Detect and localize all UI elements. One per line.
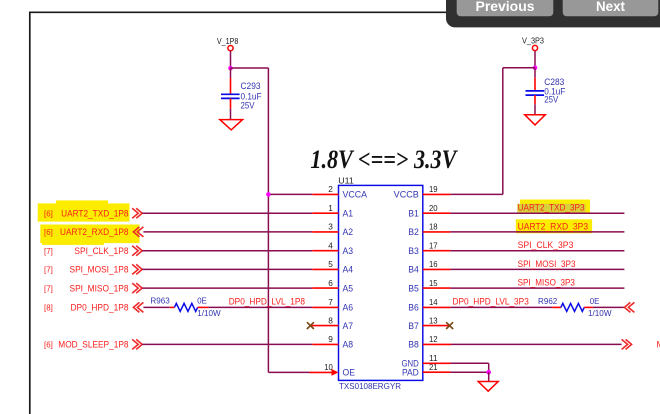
pin number 4 xyxy=(328,240,333,250)
svg-text:[7]: [7] xyxy=(44,246,53,256)
wire xyxy=(488,363,490,372)
port SPI_MOSI_1P8 xyxy=(132,264,142,274)
svg-text:SPI_MISO_3P3: SPI_MISO_3P3 xyxy=(518,278,575,288)
svg-text:UART2_TXD_1P8: UART2_TXD_1P8 xyxy=(61,208,128,218)
svg-text:U11: U11 xyxy=(338,176,354,186)
pin stub 2 xyxy=(312,193,338,195)
wire xyxy=(534,104,536,115)
value label R963 xyxy=(150,296,170,306)
pin number 6 xyxy=(328,278,333,288)
svg-text:0E: 0E xyxy=(197,296,207,306)
part number TXS0108ERGYR xyxy=(339,381,401,391)
pin name A3 xyxy=(343,246,354,256)
svg-text:25V: 25V xyxy=(544,94,558,104)
node V_1P8 junction xyxy=(228,66,233,71)
svg-text:B8: B8 xyxy=(408,340,419,350)
wire xyxy=(450,193,502,195)
svg-text:A1: A1 xyxy=(343,209,354,219)
svg-text:A8: A8 xyxy=(343,340,354,350)
pin number 9 xyxy=(328,334,333,344)
resistor R963 xyxy=(170,303,209,311)
wire xyxy=(450,231,624,233)
ground xyxy=(525,115,546,125)
svg-text:OE: OE xyxy=(343,368,356,378)
net label UART2_TXD_1P8 xyxy=(44,208,129,218)
svg-text:[7]: [7] xyxy=(44,265,53,275)
pin name A8 xyxy=(343,340,354,350)
pin stub 6 xyxy=(312,287,338,289)
power symbol V_3P3 xyxy=(522,36,544,50)
svg-text:7: 7 xyxy=(328,297,333,307)
wire xyxy=(231,67,269,69)
pin OE arrow xyxy=(310,369,339,376)
highlight UART2_TXD_3P3 xyxy=(517,200,590,214)
net label SPI_MOSI_1P8 xyxy=(44,265,129,275)
port UART2_RXD_1P8 xyxy=(133,227,143,237)
pin stub 3 xyxy=(312,231,338,233)
svg-text:B6: B6 xyxy=(408,303,419,313)
svg-text:A7: A7 xyxy=(343,321,354,331)
net label DP0_HPD_LVL_1P8 xyxy=(229,297,305,307)
highlight UART2_RXD_1P8 xyxy=(40,225,139,245)
wire xyxy=(268,193,312,195)
capacitor C283 xyxy=(526,78,545,105)
pin number 21 xyxy=(429,362,438,372)
svg-text:[6]: [6] xyxy=(44,227,53,237)
wire xyxy=(230,68,232,78)
ground xyxy=(220,120,243,130)
net label UART2_TXD_3P3 xyxy=(518,203,585,213)
wire xyxy=(450,268,624,270)
pin number 14 xyxy=(429,297,438,307)
wire xyxy=(267,68,269,372)
svg-text:1: 1 xyxy=(328,203,333,213)
wire xyxy=(230,51,232,69)
value label 1/10W xyxy=(197,308,221,318)
node V_3P3 junction xyxy=(533,66,538,71)
pin number 18 xyxy=(429,222,438,232)
title 1.8V <==> 3.3V xyxy=(310,145,458,174)
port DP0_HPD_LVL_3P3 xyxy=(624,302,634,312)
net label MOD_SLEEP_1P8 xyxy=(44,340,129,350)
nav panel xyxy=(446,0,660,27)
svg-text:A6: A6 xyxy=(343,303,354,313)
svg-text:MOD_SLEEP_1P8: MOD_SLEEP_1P8 xyxy=(58,340,128,350)
pin name B6 xyxy=(408,303,419,313)
pin number 17 xyxy=(429,240,438,250)
pin number 19 xyxy=(429,184,438,194)
net label SPI_MISO_1P8 xyxy=(44,283,129,293)
pin name A2 xyxy=(343,227,354,237)
svg-text:1/10W: 1/10W xyxy=(588,308,612,318)
pin number 5 xyxy=(328,259,333,269)
node GND junction xyxy=(486,370,491,375)
svg-text:A2: A2 xyxy=(343,227,354,237)
svg-text:17: 17 xyxy=(429,240,438,250)
wire xyxy=(450,371,488,373)
svg-text:SPI_MOSI_3P3: SPI_MOSI_3P3 xyxy=(518,259,576,269)
pin stub SPI_MISO_3P3 xyxy=(423,287,451,289)
svg-text:13: 13 xyxy=(429,315,438,325)
value label R962 xyxy=(538,296,558,306)
svg-text:A4: A4 xyxy=(343,265,354,275)
svg-text:UART2_RXD_3P3: UART2_RXD_3P3 xyxy=(518,221,589,231)
pin stub 21 xyxy=(423,371,451,373)
pin stub 9 xyxy=(312,343,338,345)
pin number 16 xyxy=(429,259,438,269)
svg-text:SPI_MISO_1P8: SPI_MISO_1P8 xyxy=(70,283,129,293)
wire xyxy=(534,51,536,68)
svg-text:SPI_CLK_3P3: SPI_CLK_3P3 xyxy=(518,240,574,250)
capacitor C293 xyxy=(221,78,240,109)
svg-text:18: 18 xyxy=(429,222,438,232)
svg-text:VCCA: VCCA xyxy=(343,190,368,200)
svg-text:25V: 25V xyxy=(241,100,255,110)
value label 0.1uF xyxy=(241,91,262,101)
value label 25V xyxy=(544,94,558,104)
svg-text:Next: Next xyxy=(596,0,625,14)
svg-text:UART2_RXD_1P8: UART2_RXD_1P8 xyxy=(60,227,129,237)
svg-text:SPI_CLK_1P8: SPI_CLK_1P8 xyxy=(74,246,128,256)
svg-text:R963: R963 xyxy=(150,296,170,306)
highlight UART2_RXD_3P3 xyxy=(516,219,592,233)
svg-text:VCCB: VCCB xyxy=(394,190,419,200)
svg-text:12: 12 xyxy=(429,334,438,344)
svg-text:B2: B2 xyxy=(408,227,419,237)
pin name OE xyxy=(343,368,356,378)
svg-text:0E: 0E xyxy=(590,296,600,306)
svg-text:A5: A5 xyxy=(343,283,354,293)
no-connect B7 xyxy=(423,322,453,329)
pin number 15 xyxy=(429,278,438,288)
net label SPI_MOSI_3P3 xyxy=(518,259,576,269)
svg-text:B7: B7 xyxy=(408,321,419,331)
pin stub 12 xyxy=(423,343,451,345)
value label C283 xyxy=(544,77,564,87)
pin name B1 xyxy=(408,209,419,219)
net label UART2_RXD_3P3 xyxy=(518,221,589,231)
pin name B7 xyxy=(408,321,419,331)
wire xyxy=(268,371,309,373)
pin name A7 xyxy=(343,321,354,331)
svg-text:Previous: Previous xyxy=(476,0,535,14)
node VCCA junction xyxy=(266,192,271,197)
svg-text:2: 2 xyxy=(328,184,333,194)
svg-text:B1: B1 xyxy=(408,209,419,219)
pin name A1 xyxy=(343,209,354,219)
wire xyxy=(450,212,624,214)
pin number 10 xyxy=(324,362,333,372)
wire xyxy=(208,306,312,308)
svg-text:[7]: [7] xyxy=(44,283,53,293)
wire xyxy=(488,372,490,381)
net label DP0_HPD_1P8 xyxy=(44,303,129,313)
pin name A4 xyxy=(343,265,354,275)
pin name VCCA xyxy=(343,190,368,200)
net label UART2_RXD_1P8 xyxy=(44,227,129,237)
pin name B8 xyxy=(408,340,419,350)
svg-text:5: 5 xyxy=(328,259,333,269)
pin number 2 xyxy=(328,184,333,194)
resistor R962 xyxy=(552,303,593,311)
svg-text:M: M xyxy=(657,340,660,350)
svg-text:8: 8 xyxy=(328,315,333,325)
value label 0E xyxy=(590,296,600,306)
svg-text:C283: C283 xyxy=(544,77,564,87)
pin stub 14 xyxy=(423,306,451,308)
pin name B3 xyxy=(408,246,419,256)
svg-text:1.8V <==> 3.3V: 1.8V <==> 3.3V xyxy=(310,145,458,174)
svg-text:[6]: [6] xyxy=(44,340,53,350)
pin stub 5 xyxy=(312,268,338,270)
wire xyxy=(142,287,312,289)
net label SPI_CLK_1P8 xyxy=(44,246,129,256)
pin stub SPI_CLK_3P3 xyxy=(423,250,451,252)
net label SPI_CLK_3P3 xyxy=(518,240,574,250)
svg-text:B5: B5 xyxy=(408,283,419,293)
port MOD_SLEEP_3P3 xyxy=(622,339,632,349)
refdes U11 xyxy=(338,176,354,186)
net label SPI_MISO_3P3 xyxy=(518,278,575,288)
wire xyxy=(142,212,312,214)
pin stub 7 xyxy=(312,306,338,308)
svg-text:PAD: PAD xyxy=(402,368,419,378)
wire xyxy=(143,306,169,308)
pin name GND xyxy=(402,359,420,369)
pin number 13 xyxy=(429,315,438,325)
button Next xyxy=(563,0,659,16)
pin number 8 xyxy=(328,315,333,325)
wire xyxy=(142,250,312,252)
svg-text:DP0_HPD_LVL_1P8: DP0_HPD_LVL_1P8 xyxy=(229,297,305,307)
svg-text:R962: R962 xyxy=(538,296,558,306)
svg-text:4: 4 xyxy=(328,240,333,250)
pin number 1 xyxy=(328,203,333,213)
svg-text:20: 20 xyxy=(429,203,438,213)
svg-text:1/10W: 1/10W xyxy=(197,308,221,318)
pin name A6 xyxy=(343,303,354,313)
IC U11 outline xyxy=(339,185,423,380)
power symbol V_1P8 xyxy=(217,37,239,51)
svg-text:9: 9 xyxy=(328,334,333,344)
pin stub SPI_MOSI_3P3 xyxy=(423,268,451,270)
wire xyxy=(450,250,624,252)
wire xyxy=(534,68,536,78)
pin number 12 xyxy=(429,334,438,344)
svg-text:SPI_MOSI_1P8: SPI_MOSI_1P8 xyxy=(70,265,129,275)
wire xyxy=(143,231,312,233)
pin stub 1 xyxy=(312,212,338,214)
wire xyxy=(593,306,625,308)
svg-text:19: 19 xyxy=(429,184,438,194)
pin stub 4 xyxy=(312,250,338,252)
pin name B5 xyxy=(408,283,419,293)
wire xyxy=(230,109,232,120)
pin name PAD xyxy=(402,368,419,378)
svg-text:C293: C293 xyxy=(241,81,261,91)
svg-text:UART2_TXD_3P3: UART2_TXD_3P3 xyxy=(518,203,585,213)
net label DP0_HPD_LVL_3P3 xyxy=(453,297,529,307)
wire xyxy=(142,268,312,270)
svg-text:16: 16 xyxy=(429,259,438,269)
port MOD_SLEEP_1P8 xyxy=(132,339,142,349)
svg-text:14: 14 xyxy=(429,297,438,307)
pin stub 19 xyxy=(423,193,451,195)
svg-text:[8]: [8] xyxy=(44,303,53,313)
port SPI_MISO_1P8 xyxy=(132,283,142,293)
svg-text:3: 3 xyxy=(328,222,333,232)
svg-text:V_1P8: V_1P8 xyxy=(217,37,239,46)
pin stub UART2_RXD_3P3 xyxy=(423,231,451,233)
svg-text:DP0_HPD_1P8: DP0_HPD_1P8 xyxy=(71,303,129,313)
pin number 11 xyxy=(429,353,438,363)
svg-text:B3: B3 xyxy=(408,246,419,256)
pin name VCCB xyxy=(394,190,419,200)
svg-text:6: 6 xyxy=(328,278,333,288)
value label 25V xyxy=(241,100,255,110)
wire xyxy=(503,67,535,69)
pin stub UART2_TXD_3P3 xyxy=(423,212,451,214)
svg-text:B4: B4 xyxy=(408,265,419,275)
value label 0.1uF xyxy=(544,87,565,97)
pin stub 11 xyxy=(423,362,451,364)
svg-text:A3: A3 xyxy=(343,246,354,256)
ground xyxy=(478,382,498,392)
port UART2_TXD_1P8 xyxy=(132,208,142,218)
value label 1/10W xyxy=(588,308,612,318)
pin number 20 xyxy=(429,203,438,213)
highlight UART2_TXD_1P8 xyxy=(38,200,130,221)
wire xyxy=(142,343,312,345)
wire xyxy=(450,306,552,308)
svg-text:[6]: [6] xyxy=(44,208,53,218)
pin name B4 xyxy=(408,265,419,275)
pin number 3 xyxy=(328,222,333,232)
net label fragment xyxy=(657,340,660,350)
value label 0E xyxy=(197,296,207,306)
port SPI_CLK_1P8 xyxy=(132,246,142,256)
pin name B2 xyxy=(408,227,419,237)
svg-text:TXS0108ERGYR: TXS0108ERGYR xyxy=(339,381,401,391)
svg-text:V_3P3: V_3P3 xyxy=(522,36,544,45)
svg-text:DP0_HPD_LVL_3P3: DP0_HPD_LVL_3P3 xyxy=(453,297,529,307)
no-connect A7 xyxy=(307,322,339,329)
wire xyxy=(502,68,504,195)
button Previous xyxy=(457,0,554,16)
pin name A5 xyxy=(343,283,354,293)
value label C293 xyxy=(241,81,261,91)
port DP0_HPD_1P8 xyxy=(133,302,143,312)
wire xyxy=(450,362,488,364)
svg-text:15: 15 xyxy=(429,278,438,288)
wire xyxy=(451,343,622,345)
pin number 7 xyxy=(328,297,333,307)
wire xyxy=(450,287,624,289)
